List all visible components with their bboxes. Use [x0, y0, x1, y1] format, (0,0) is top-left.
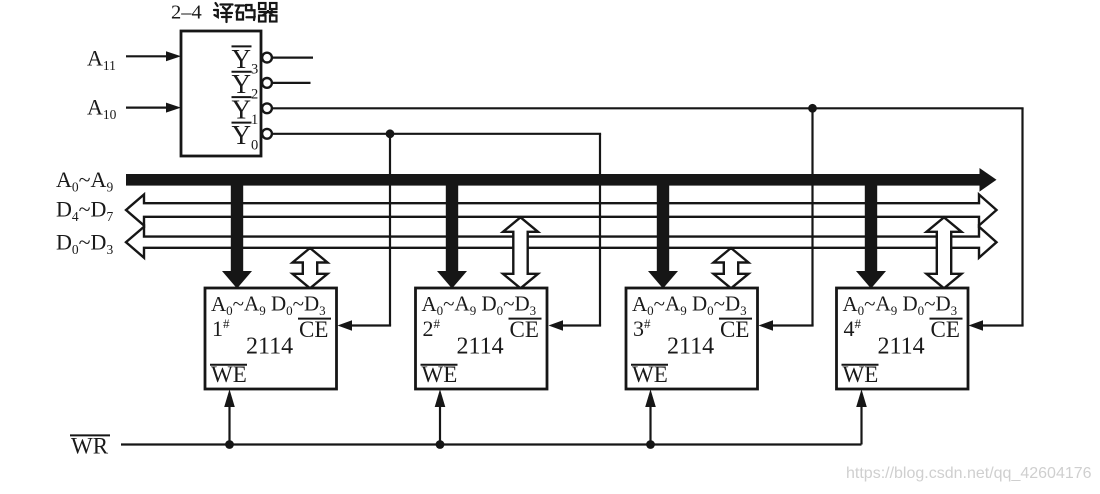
bus: address bus A0~A9 (solid thick, right arrow) [126, 168, 997, 192]
svg-text:2–4: 2–4 [171, 2, 202, 24]
wire: WR up into chip 3 WE [645, 389, 656, 444]
wire: A11 into decoder [126, 51, 181, 61]
bus drop: A0~A9 into chip 4 (solid down arrow) [856, 180, 886, 289]
decoder output label Y2 (active-low) [232, 69, 259, 103]
bus: data bus D0~D3 (hollow, arrows both ends) [126, 227, 997, 258]
memory chip U2 : 2114 #2 [416, 288, 548, 389]
bus: data bus D4~D7 (hollow, arrows both ends) [126, 195, 997, 226]
svg-text:https://blog.csdn.net/qq_42604: https://blog.csdn.net/qq_42604176 [846, 465, 1092, 482]
junction on WR net at chip 1 [225, 440, 234, 449]
wire: WR horizontal run [121, 443, 862, 445]
wire: WR up into chip 2 WE [435, 389, 446, 444]
wire: Y0 net horizontal run [272, 133, 601, 135]
inverter bubble on output Y2 [262, 78, 272, 88]
decoder output label Y3 (active-low) [232, 44, 259, 78]
memory chip U4 : 2114 #4 [837, 288, 969, 389]
label: decoder title "2-4 译码器" [171, 2, 278, 24]
bus drop: D4~D7 to chip 4 (hollow double arrow) [927, 217, 962, 288]
wire: WR up into chip 4 WE [856, 389, 867, 444]
svg-text:2114: 2114 [457, 334, 504, 360]
svg-text:CE: CE [720, 317, 749, 342]
memory chip U1 : 2114 #1 [205, 288, 337, 389]
bus drop: D0~D3 to chip 3 (hollow double arrow) [714, 248, 749, 288]
bus drop: A0~A9 into chip 2 (solid down arrow) [437, 180, 467, 289]
svg-text:A0~A9: A0~A9 [56, 167, 113, 195]
svg-text:CE: CE [931, 317, 960, 342]
wire: Y1 net horizontal run [272, 107, 1023, 109]
svg-text:CE: CE [299, 317, 328, 342]
svg-text:2114: 2114 [878, 334, 925, 360]
inverter bubble on output Y1 [262, 103, 272, 113]
inverter bubble on output Y3 [262, 53, 272, 63]
svg-text:D0~D3: D0~D3 [56, 230, 113, 258]
junction on WR net at chip 2 [436, 440, 445, 449]
junction on WR net at chip 3 [646, 440, 655, 449]
wire: A10 into decoder [126, 103, 181, 113]
junction on Y0 net [386, 129, 395, 138]
svg-text:2114: 2114 [246, 334, 293, 360]
wire: Y0 drop to chip 1 CE [338, 134, 392, 331]
inverter bubble on output Y0 [262, 129, 272, 139]
wire: Y1 drop to chip 4 CE [969, 108, 1024, 330]
bus drop: D4~D7 to chip 2 (hollow double arrow) [503, 217, 538, 288]
bus drop: D0~D3 to chip 1 (hollow double arrow) [293, 248, 328, 288]
svg-text:WR: WR [71, 434, 109, 459]
bus drop: A0~A9 into chip 3 (solid down arrow) [648, 180, 678, 289]
wire: Y3 output stub [272, 56, 313, 58]
memory chip U3 : 2114 #3 [626, 288, 758, 389]
bus drop: A0~A9 into chip 1 (solid down arrow) [222, 180, 252, 289]
wire: Y2 output stub [272, 82, 310, 84]
svg-text:D4~D7: D4~D7 [56, 197, 113, 225]
label WR (write enable, active low) [70, 434, 110, 459]
decoder output label Y0 (active-low) [232, 120, 259, 154]
decoder output label Y1 (active-low) [232, 95, 259, 129]
svg-text:2114: 2114 [667, 334, 714, 360]
wire: Y0 drop to chip 2 CE [549, 134, 602, 331]
wire: Y1 drop to chip 3 CE [759, 108, 814, 330]
wire: WR up into chip 1 WE [224, 389, 235, 444]
decoder U1 (2-4 decoder) box [181, 31, 261, 156]
svg-text:CE: CE [510, 317, 539, 342]
junction on Y1 net [808, 104, 817, 113]
